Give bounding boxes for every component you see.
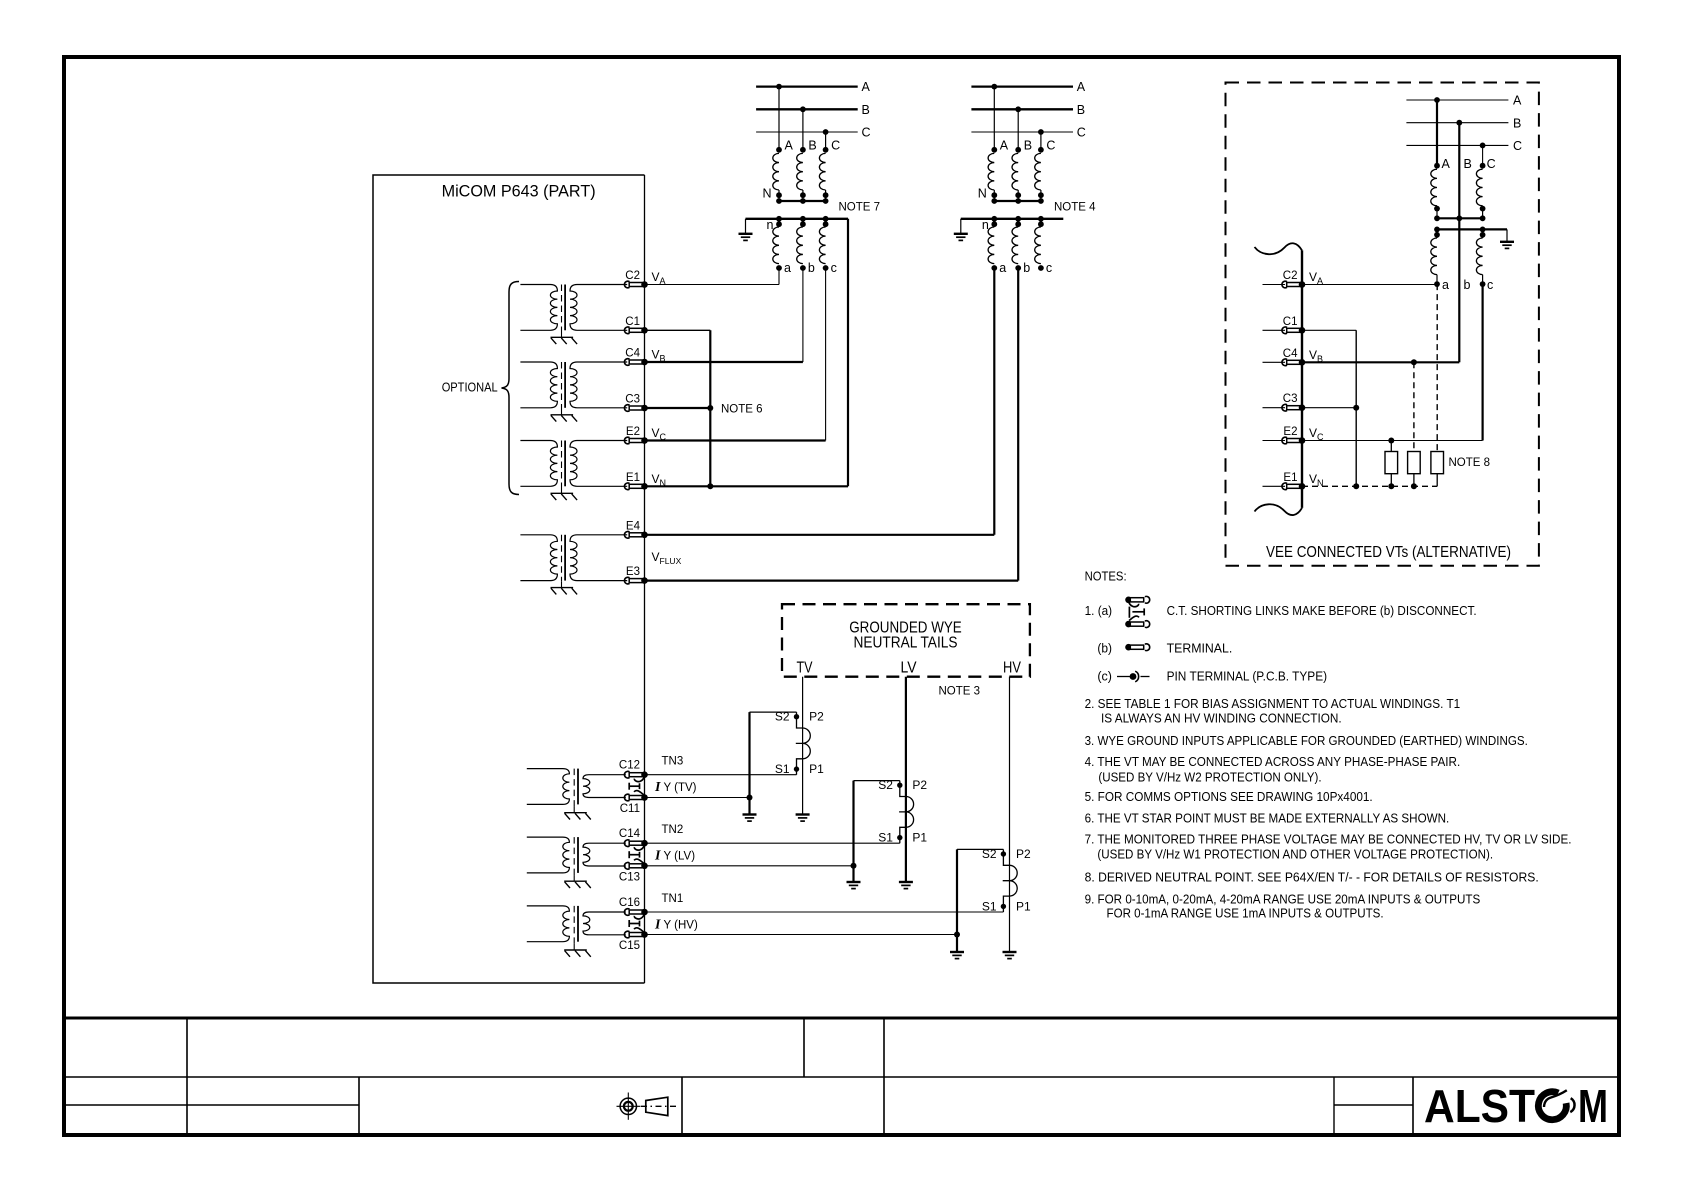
wire C1 vee xyxy=(1302,329,1356,331)
title block row line right xyxy=(1334,1104,1413,1106)
svg-text:Y (TV): Y (TV) xyxy=(664,782,697,794)
three-phase VT bank (primary/secondary), NOTE 7 xyxy=(739,80,871,275)
vee terminal bus xyxy=(1301,250,1303,508)
svg-text:VEE CONNECTED VTs (ALTERNATIVE: VEE CONNECTED VTs (ALTERNATIVE) xyxy=(1266,544,1511,561)
svg-text:C: C xyxy=(862,126,871,140)
title block row line xyxy=(62,1076,1621,1078)
CT TV secondary xyxy=(794,712,811,775)
svg-text:C2: C2 xyxy=(1283,270,1298,282)
svg-text:9. FOR 0-10mA, 0-20mA, 4-20mA: 9. FOR 0-10mA, 0-20mA, 4-20mA RANGE USE … xyxy=(1085,891,1481,906)
ground (vee) xyxy=(1500,242,1514,249)
GROUNDED WYE NEUTRAL TAILS box xyxy=(782,604,1030,677)
svg-text:C1: C1 xyxy=(625,316,640,328)
svg-text:A: A xyxy=(1442,157,1451,171)
node bus C junction xyxy=(823,129,829,135)
CT shorting links C16/C15 xyxy=(629,915,644,933)
svg-text:I: I xyxy=(654,918,661,933)
MiCOM P643 relay box xyxy=(373,175,645,983)
vee bus C xyxy=(1406,144,1508,146)
wire VN derived neutral (dashed) xyxy=(1302,485,1437,487)
HV neutral tail wire xyxy=(1009,677,1011,952)
primary winding B xyxy=(800,147,806,153)
svg-text:A: A xyxy=(1513,94,1522,108)
svg-text:E2: E2 xyxy=(1283,426,1297,438)
svg-text:S1: S1 xyxy=(878,831,893,845)
vee secondary winding a xyxy=(1434,227,1440,233)
svg-text:M: M xyxy=(1578,1080,1608,1132)
terminal C13 xyxy=(624,863,647,870)
vee secondary winding c xyxy=(1480,227,1486,233)
wire phase A drop xyxy=(778,87,780,150)
svg-text:OPTIONAL: OPTIONAL xyxy=(442,380,498,395)
projection symbol xyxy=(617,1093,677,1120)
bus B xyxy=(756,108,858,110)
svg-text:P1: P1 xyxy=(1016,900,1031,914)
svg-text:C3: C3 xyxy=(625,394,640,406)
wire C3 to star point xyxy=(645,407,711,409)
vee secondary top bus xyxy=(1437,228,1507,230)
svg-text:a: a xyxy=(1442,278,1449,292)
svg-text:NOTES:: NOTES: xyxy=(1085,569,1127,584)
wire C13 to LV S2 return xyxy=(645,865,854,867)
primary winding C xyxy=(823,147,829,153)
svg-text:E4: E4 xyxy=(626,520,641,532)
wire C3 vee xyxy=(1302,407,1356,409)
svg-text:4. THE VT MAY BE CONNECTED ACR: 4. THE VT MAY BE CONNECTED ACROSS ANY PH… xyxy=(1085,754,1461,769)
svg-text:8. DERIVED NEUTRAL POINT. SE: 8. DERIVED NEUTRAL POINT. SEE P64X/EN T/… xyxy=(1085,870,1539,885)
title block divider x187 xyxy=(186,1017,188,1135)
node S2/HV earth junction xyxy=(954,932,960,938)
secondary winding a xyxy=(776,216,782,222)
vee ground stub xyxy=(1506,229,1508,241)
terminal C4 xyxy=(624,359,647,366)
terminal C1 xyxy=(624,327,647,334)
node star point C3 xyxy=(707,405,713,411)
title block divider x804 xyxy=(803,1017,805,1077)
svg-text:I: I xyxy=(654,780,661,795)
three-phase VT bank 2, NOTE 4 xyxy=(954,80,1086,275)
wire R3 top (dashed) xyxy=(1436,284,1438,451)
terminal E4 xyxy=(624,532,647,539)
svg-text:B: B xyxy=(862,103,870,117)
svg-text:3. WYE GROUND INPUTS APPLICABL: 3. WYE GROUND INPUTS APPLICABLE FOR GROU… xyxy=(1085,733,1528,748)
svg-text:P2: P2 xyxy=(1016,847,1031,861)
svg-text:FOR 0-1mA RANGE USE 1mA INPUTS: FOR 0-1mA RANGE USE 1mA INPUTS & OUTPUTS… xyxy=(1107,906,1384,921)
vee phase B drop xyxy=(1458,123,1460,363)
CT shorting links C14/C13 xyxy=(629,846,644,864)
svg-text:P1: P1 xyxy=(809,762,824,776)
terminal C4 (vee) xyxy=(1263,361,1286,363)
svg-text:C11: C11 xyxy=(620,803,640,815)
ground (S2 LV) xyxy=(847,882,861,889)
svg-text:C: C xyxy=(1487,157,1496,171)
wire E4 to bank2 a xyxy=(993,268,995,535)
wire C15 to HV S2 return xyxy=(645,934,958,936)
terminal C11 xyxy=(624,794,647,801)
wire S2 return xyxy=(750,711,797,713)
wire C1-C3-VN star link xyxy=(1355,330,1357,486)
ground stub xyxy=(745,219,747,234)
svg-text:(b): (b) xyxy=(1097,641,1112,656)
svg-text:b: b xyxy=(808,261,815,275)
title block divider x359 xyxy=(358,1077,360,1135)
svg-text:c: c xyxy=(831,261,837,275)
title block divider x1413 xyxy=(1412,1077,1414,1135)
svg-text:NOTE 6: NOTE 6 xyxy=(721,404,763,416)
svg-text:C14: C14 xyxy=(619,828,641,840)
node VN R2 xyxy=(1411,483,1417,489)
wire R2 bottom xyxy=(1413,474,1415,487)
wire R2 top (dashed) xyxy=(1413,362,1415,451)
svg-text:C: C xyxy=(831,139,840,153)
node S2/LV earth junction xyxy=(851,863,857,869)
terminal E1 (vee) xyxy=(1263,485,1286,487)
svg-text:PIN TERMINAL (P.C.B. TYPE): PIN TERMINAL (P.C.B. TYPE) xyxy=(1167,669,1328,684)
transformer VT E2/E1 xyxy=(520,441,627,501)
svg-text:TERMINAL.: TERMINAL. xyxy=(1167,641,1233,656)
svg-text:Y (HV): Y (HV) xyxy=(664,920,698,932)
svg-text:TN3: TN3 xyxy=(662,756,684,768)
svg-text:NEUTRAL TAILS: NEUTRAL TAILS xyxy=(854,634,958,651)
svg-text:P1: P1 xyxy=(912,831,927,845)
node VN R1 xyxy=(1388,483,1394,489)
node star point E1 xyxy=(707,483,713,489)
terminal C2 xyxy=(624,281,647,288)
ground (HV tail) xyxy=(1003,952,1017,959)
wire vee c to VC xyxy=(1481,284,1483,440)
svg-text:C15: C15 xyxy=(619,940,640,952)
svg-text:B: B xyxy=(1513,116,1521,130)
ground (S2 HV) xyxy=(950,952,964,959)
wire VB from bank1 b xyxy=(802,268,804,362)
svg-text:N: N xyxy=(762,187,771,201)
transformer VT C4/C3 xyxy=(520,362,627,422)
terminal C3 xyxy=(624,405,647,412)
ALSTOM logo xyxy=(1424,1080,1608,1132)
resistor R1 xyxy=(1385,452,1398,474)
wire C16 to HV S1 xyxy=(645,911,1004,913)
node S2/TV earth junction xyxy=(747,795,753,801)
terminal C15 xyxy=(624,931,647,938)
svg-text:C13: C13 xyxy=(619,871,640,883)
title block row line left xyxy=(62,1104,359,1106)
resistor R2 xyxy=(1408,452,1421,474)
wire E3 to bank2 b xyxy=(1017,268,1019,581)
svg-text:5. FOR COMMS OPTIONS SEE DRAW: 5. FOR COMMS OPTIONS SEE DRAWING 10Px400… xyxy=(1085,789,1373,804)
wire C11 to TV S2 return xyxy=(645,797,750,799)
wire R1 bottom xyxy=(1390,474,1392,487)
transformer VT C2/C1 xyxy=(520,285,627,345)
ground (LV tail) xyxy=(899,882,913,889)
svg-text:a: a xyxy=(784,261,791,275)
svg-text:ALST: ALST xyxy=(1424,1080,1535,1132)
title block divider x1334 xyxy=(1333,1077,1335,1135)
svg-text:C4: C4 xyxy=(625,348,640,360)
terminal C3 (vee) xyxy=(1263,407,1286,409)
wire VC xyxy=(1302,440,1483,442)
wire S2 return xyxy=(957,848,1003,850)
svg-text:A: A xyxy=(785,139,794,153)
svg-text:C4: C4 xyxy=(1283,348,1298,360)
svg-text:Y (LV): Y (LV) xyxy=(664,851,696,863)
svg-text:(USED BY V/Hz W2 PROTECTION ON: (USED BY V/Hz W2 PROTECTION ONLY). xyxy=(1098,769,1321,784)
svg-text:1. (a): 1. (a) xyxy=(1085,603,1113,618)
icon terminal xyxy=(1125,644,1149,651)
secondary n bus xyxy=(746,218,849,220)
svg-text:6. THE VT STAR POINT MUST BE M: 6. THE VT STAR POINT MUST BE MADE EXTERN… xyxy=(1085,810,1450,825)
svg-text:HV: HV xyxy=(1003,660,1021,677)
svg-text:B: B xyxy=(808,139,816,153)
wire R3 bottom xyxy=(1436,474,1438,487)
terminal C2 (vee) xyxy=(1263,284,1286,286)
VEE CONNECTED VTs box xyxy=(1226,83,1539,566)
OPTIONAL brace xyxy=(502,282,520,495)
wire vee a to VA xyxy=(1302,284,1437,286)
svg-text:NOTE 3: NOTE 3 xyxy=(939,686,981,698)
svg-text:E2: E2 xyxy=(626,426,640,438)
svg-text:E3: E3 xyxy=(626,566,640,578)
wire phase B drop xyxy=(802,109,804,150)
svg-text:MiCOM P643 (PART): MiCOM P643 (PART) xyxy=(442,182,596,201)
svg-text:C2: C2 xyxy=(625,270,640,282)
terminal C14 xyxy=(624,840,647,847)
svg-text:IS ALWAYS AN HV WINDING CONNEC: IS ALWAYS AN HV WINDING CONNECTION. xyxy=(1101,710,1342,725)
svg-text:E1: E1 xyxy=(1283,472,1297,484)
primary winding A xyxy=(776,147,782,153)
svg-text:S1: S1 xyxy=(775,762,790,776)
TV neutral tail wire xyxy=(802,677,804,815)
wire R1 top xyxy=(1390,441,1392,452)
CT shorting links C12/C11 xyxy=(629,778,644,796)
icon pin terminal xyxy=(1117,671,1150,682)
resistor R3 xyxy=(1431,452,1444,474)
node bus B junction xyxy=(800,106,806,112)
svg-text:C16: C16 xyxy=(619,897,640,909)
title block top separator xyxy=(62,1017,1621,1020)
wire C14 to LV S1 xyxy=(645,842,900,844)
terminal E1 xyxy=(624,483,647,490)
terminal C16 xyxy=(624,909,647,916)
svg-text:TV: TV xyxy=(797,660,814,677)
relay terminal bus xyxy=(644,175,646,983)
vee phase C drop xyxy=(1482,145,1484,165)
wire VA from bank1 a xyxy=(778,268,780,285)
svg-text:C1: C1 xyxy=(1283,316,1298,328)
node bus A junction xyxy=(776,84,782,90)
vee primary winding x1482.6 xyxy=(1480,163,1486,169)
svg-text:P2: P2 xyxy=(809,710,824,724)
svg-text:(c): (c) xyxy=(1097,669,1112,684)
svg-text:NOTE 4: NOTE 4 xyxy=(1054,202,1096,214)
svg-text:E1: E1 xyxy=(626,472,640,484)
svg-text:C.T. SHORTING LINKS MAKE BEFOR: C.T. SHORTING LINKS MAKE BEFORE (b) DISC… xyxy=(1167,603,1477,618)
svg-text:S1: S1 xyxy=(982,900,997,914)
terminal E2 (vee) xyxy=(1263,440,1286,442)
svg-text:b: b xyxy=(1464,278,1471,292)
transformer CT TN1 xyxy=(527,906,626,957)
svg-text:LV: LV xyxy=(901,660,918,677)
secondary winding b xyxy=(800,216,806,222)
wire C1 to star point xyxy=(645,329,711,331)
node VB R2 junction xyxy=(1411,359,1417,365)
terminal E3 xyxy=(624,577,647,584)
continuation squiggle top xyxy=(1255,243,1303,254)
wire VB xyxy=(1302,361,1459,363)
bus C xyxy=(756,131,858,133)
svg-text:C3: C3 xyxy=(1283,393,1298,405)
vee bus B xyxy=(1406,122,1508,124)
transformer CT TN2 xyxy=(527,837,626,888)
svg-text:B: B xyxy=(1464,157,1472,171)
wire S2 return xyxy=(854,780,900,782)
svg-text:2. SEE TABLE 1 FOR BIAS ASSIG: 2. SEE TABLE 1 FOR BIAS ASSIGNMENT TO AC… xyxy=(1085,696,1461,711)
svg-text:7. THE MONITORED THREE PHASE V: 7. THE MONITORED THREE PHASE VOLTAGE MAY… xyxy=(1085,832,1572,847)
vee primary bottom bus xyxy=(1437,217,1483,219)
terminal C12 xyxy=(624,771,647,778)
ground (S2 TV) xyxy=(743,815,757,822)
svg-text:P2: P2 xyxy=(912,778,927,792)
vee primary winding x1437.0 xyxy=(1434,163,1440,169)
svg-text:TN1: TN1 xyxy=(662,893,684,905)
svg-text:NOTE 7: NOTE 7 xyxy=(839,202,881,214)
svg-text:I: I xyxy=(654,849,661,864)
ground (TV tail) xyxy=(796,815,810,822)
node VN star xyxy=(1353,483,1359,489)
svg-text:(USED BY V/Hz W1 PROTECTION AN: (USED BY V/Hz W1 PROTECTION AND OTHER VO… xyxy=(1097,846,1493,861)
transformer VT E4/E3 (VFLUX) xyxy=(520,535,627,595)
secondary winding c xyxy=(823,216,829,222)
terminal C1 (vee) xyxy=(1263,329,1286,331)
svg-text:C: C xyxy=(1513,139,1522,153)
wire VN from bank1 n bus xyxy=(847,219,849,487)
icon CT shorting links xyxy=(1125,596,1149,627)
transformer CT TN3 xyxy=(527,769,626,820)
bus A xyxy=(756,85,858,87)
wire VC from bank1 c xyxy=(825,268,827,441)
title block divider x884 xyxy=(883,1017,885,1135)
svg-text:c: c xyxy=(1487,278,1493,292)
svg-text:TN2: TN2 xyxy=(662,824,684,836)
wire star point vertical NOTE 6 xyxy=(709,330,711,486)
svg-text:C12: C12 xyxy=(619,760,640,772)
wire phase C drop xyxy=(825,132,827,150)
wire C12 to TV S1 xyxy=(645,774,797,776)
terminal E2 xyxy=(624,437,647,444)
CT LV secondary xyxy=(897,781,914,844)
node C3 star xyxy=(1353,405,1359,411)
svg-text:A: A xyxy=(862,80,871,94)
ground xyxy=(739,234,753,241)
vee phase A drop xyxy=(1436,100,1438,166)
LV neutral tail wire xyxy=(905,677,907,882)
svg-text:NOTE 8: NOTE 8 xyxy=(1449,457,1491,469)
title block divider x682 xyxy=(681,1077,683,1135)
continuation squiggle bottom xyxy=(1255,504,1303,515)
CT HV secondary xyxy=(1001,849,1018,912)
primary N bus xyxy=(779,200,826,202)
vee bus A xyxy=(1406,99,1508,101)
node VC R1 junction xyxy=(1388,438,1394,444)
